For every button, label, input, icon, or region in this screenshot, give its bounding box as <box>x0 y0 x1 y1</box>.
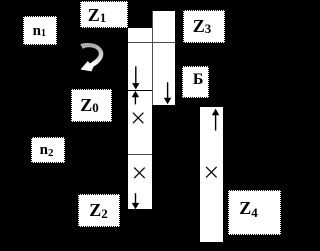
gray vertical divider between columns A and B <box>152 11 153 105</box>
box Z3 <box>183 10 225 44</box>
box n1 <box>23 16 57 45</box>
curved rotation arrow <box>76 40 106 74</box>
box n2 <box>31 137 65 163</box>
box Z1 <box>80 1 129 28</box>
column C (tall right white column) <box>200 107 223 243</box>
column B (upper right central white column) <box>152 11 175 105</box>
column A (left central white column) <box>128 28 152 210</box>
gray divider line across columns A and B <box>128 42 175 43</box>
box B (Cyrillic) <box>182 66 208 98</box>
box Z2 <box>78 194 120 227</box>
box Z0 <box>71 89 112 122</box>
box Z4 <box>228 190 280 235</box>
gray divider line in column A <box>128 154 152 155</box>
black meshing line in column A <box>128 90 153 91</box>
